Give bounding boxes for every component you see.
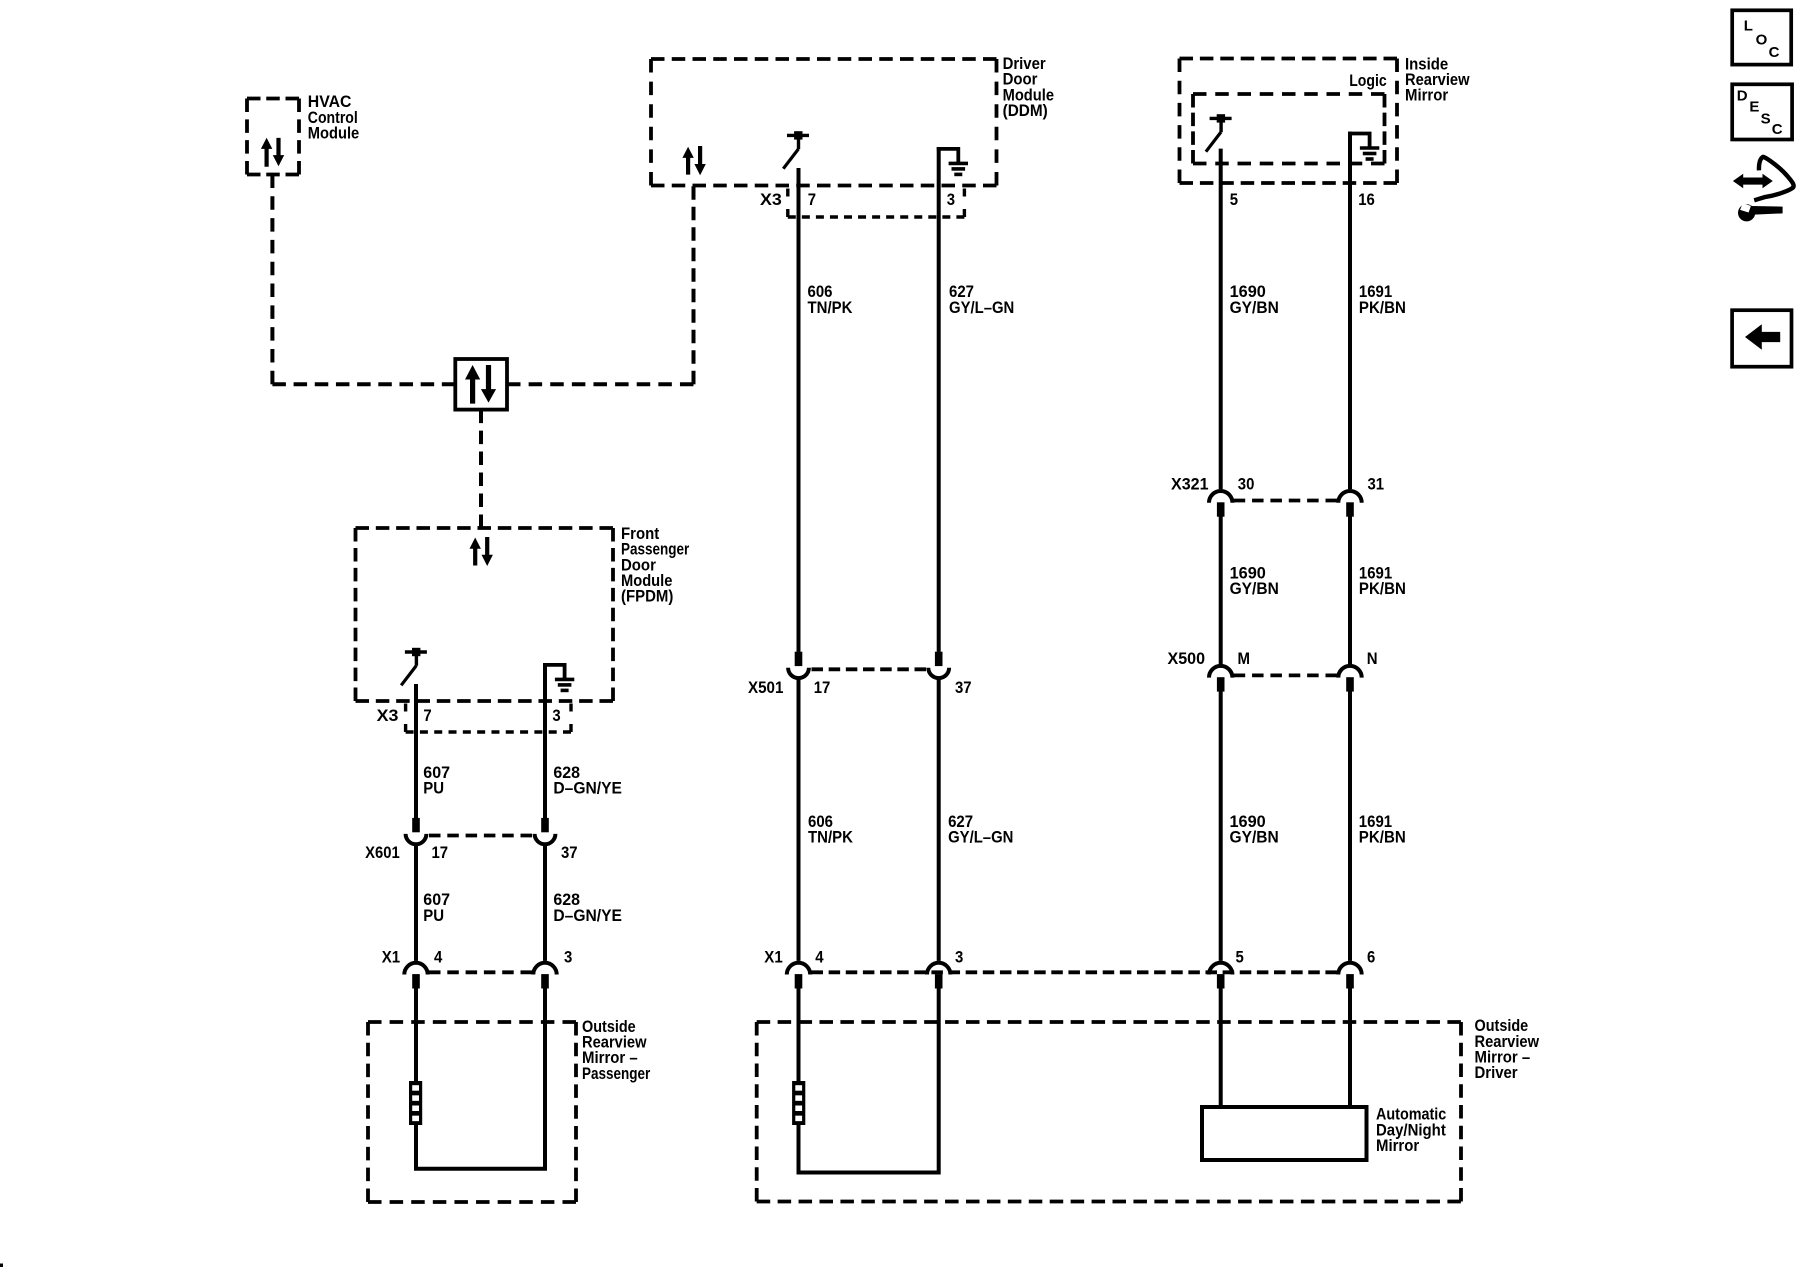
wire 607 PU X601 to X1: [414, 845, 418, 961]
svg-text:X601: X601: [365, 843, 400, 862]
wire (dashed) junction box down to FPDM: [479, 410, 483, 528]
module box: Outside Rearview Mirror - Passenger: [368, 1022, 576, 1202]
label 1691 PK/BN (middle): [1359, 563, 1406, 598]
svg-text:X1: X1: [382, 948, 400, 967]
ground symbol inside FPDM: [543, 665, 574, 691]
ground symbol inside IRM: [1348, 134, 1379, 160]
label 607 PU (upper): [423, 763, 450, 798]
svg-text:Passenger: Passenger: [582, 1064, 651, 1083]
up/down arrow symbol inside DDM: [682, 146, 705, 175]
svg-text:GY/L–GN: GY/L–GN: [948, 828, 1013, 847]
wire 1690 GY/BN X500 to X1: [1219, 691, 1223, 961]
svg-text:Module: Module: [308, 123, 359, 142]
wire 1690 GY/BN IRM to X321: [1219, 149, 1223, 490]
junction box with up/down arrows: [455, 359, 507, 410]
svg-text:3: 3: [552, 706, 560, 725]
svg-text:4: 4: [815, 948, 824, 967]
Front Passenger Door Module (FPDM) label: [621, 524, 690, 606]
svg-text:TN/PK: TN/PK: [808, 828, 854, 847]
wire (dashed) HVAC module down: [270, 175, 274, 385]
svg-text:7: 7: [808, 190, 816, 209]
Outside Rearview Mirror - Driver label: [1475, 1016, 1540, 1082]
connector X500 dashed line: [1234, 674, 1337, 678]
wire 1691 PK/BN IRM to X321: [1348, 132, 1352, 490]
svg-text:PK/BN: PK/BN: [1359, 579, 1406, 598]
heater element (driver mirror): [792, 1081, 805, 1125]
wire X1-6 down to auto day/night mirror: [1348, 988, 1352, 1107]
svg-text:N: N: [1367, 649, 1378, 668]
svg-text:17: 17: [432, 843, 449, 862]
label 627 GY/L-GN (upper): [949, 282, 1014, 317]
label 1690 GY/BN (upper): [1230, 282, 1279, 317]
wire heater to bottom U (passenger mirror): [416, 988, 545, 1169]
svg-text:X3: X3: [760, 190, 782, 209]
svg-text:31: 31: [1368, 474, 1385, 493]
svg-text:PK/BN: PK/BN: [1359, 298, 1406, 317]
DESC icon box: [1732, 84, 1792, 139]
svg-text:X1: X1: [764, 948, 782, 967]
back arrow icon box: [1732, 310, 1791, 367]
label 1691 PK/BN (lower): [1359, 812, 1406, 847]
page edge mark: [0, 1264, 3, 1268]
svg-text:Mirror: Mirror: [1405, 86, 1449, 105]
connector X501 pin 17 symbol: [788, 652, 809, 678]
svg-text:(FPDM): (FPDM): [621, 587, 673, 606]
label 1691 PK/BN (upper): [1359, 282, 1406, 317]
svg-text:5: 5: [1230, 190, 1238, 209]
svg-text:E: E: [1749, 99, 1759, 116]
LOC icon box: [1732, 10, 1791, 64]
svg-text:(DDM): (DDM): [1003, 101, 1048, 120]
connector X1 pin 5 symbol (driver mirror): [1209, 963, 1232, 989]
wire X1-4 down to heater (passenger mirror): [414, 988, 418, 1081]
label 627 GY/L-GN (lower): [948, 812, 1013, 847]
svg-text:X3: X3: [377, 706, 399, 725]
Driver Door Module (DDM) label: [1003, 54, 1054, 120]
svg-text:GY/L–GN: GY/L–GN: [949, 298, 1014, 317]
wire (dashed) junction box to DDM: [507, 382, 694, 386]
svg-text:Mirror: Mirror: [1376, 1136, 1420, 1155]
Automatic Day/Night Mirror label: [1376, 1105, 1446, 1155]
connector X321 pin 31 symbol: [1338, 491, 1361, 517]
wire 628 D-GN/YE X601 to X1: [543, 845, 547, 961]
wire 628 D-GN/YE from FPDM ground to X601: [543, 663, 547, 819]
connector X1 pin 3 symbol (driver mirror): [927, 963, 950, 989]
svg-text:X321: X321: [1171, 474, 1209, 493]
connector X601 dashed line: [429, 834, 532, 838]
svg-text:L: L: [1744, 17, 1753, 34]
svg-text:GY/BN: GY/BN: [1230, 298, 1279, 317]
svg-text:D–GN/YE: D–GN/YE: [553, 906, 622, 925]
svg-text:Logic: Logic: [1349, 71, 1387, 90]
switch symbol inside IRM: [1206, 114, 1232, 152]
wire 1691 PK/BN X321 to X500: [1348, 516, 1352, 664]
svg-text:M: M: [1238, 649, 1251, 668]
heater element (passenger mirror): [409, 1081, 422, 1125]
connector X501 dashed line: [812, 667, 927, 671]
svg-text:4: 4: [434, 948, 443, 967]
wire 607 PU from FPDM switch to X601: [414, 684, 418, 819]
wire heater to bottom U (driver mirror): [799, 988, 939, 1173]
wire 627 GY/L-GN X501 to X1: [937, 678, 941, 961]
module box: HVAC Control Module: [247, 99, 299, 175]
svg-text:TN/PK: TN/PK: [808, 298, 854, 317]
module box: Inside Rearview Mirror (outer): [1180, 59, 1398, 184]
svg-text:GY/BN: GY/BN: [1230, 828, 1279, 847]
svg-text:16: 16: [1358, 190, 1375, 209]
svg-text:3: 3: [947, 190, 955, 209]
connector X601 pin 17 symbol: [406, 818, 427, 844]
connector X1 pin 6 symbol (driver mirror): [1338, 963, 1361, 989]
wire X1-4 down to heater (driver mirror): [797, 988, 801, 1081]
Automatic Day/Night Mirror box: [1202, 1107, 1367, 1160]
connector X321 pin 30 symbol: [1209, 491, 1232, 517]
connector X501 pin 37 symbol: [928, 652, 949, 678]
connector X1 pin 4 symbol (driver mirror): [787, 963, 810, 989]
connector X1 dashed line (passenger mirror): [429, 970, 532, 974]
HVAC Control Module label: [308, 92, 359, 142]
label 606 TN/PK (upper): [808, 282, 854, 317]
svg-text:7: 7: [423, 706, 431, 725]
svg-text:37: 37: [561, 843, 578, 862]
tools/arrow icon: [1733, 157, 1794, 222]
connector X500 pin M symbol: [1209, 666, 1232, 692]
Inside Rearview Mirror label: [1405, 54, 1470, 104]
module box: Outside Rearview Mirror - Driver: [757, 1022, 1461, 1202]
connector box X3 (DDM): [788, 189, 965, 218]
svg-text:D–GN/YE: D–GN/YE: [553, 779, 622, 798]
connector X1 pin 4 symbol (passenger mirror): [404, 963, 427, 989]
connector X1 dashed line (driver mirror): [812, 970, 1338, 974]
switch symbol inside FPDM: [401, 648, 427, 686]
svg-text:D: D: [1737, 87, 1748, 104]
svg-text:S: S: [1761, 111, 1771, 128]
label 1690 GY/BN (lower): [1230, 812, 1279, 847]
connector X1 pin 3 symbol (passenger mirror): [533, 963, 556, 989]
wire (dashed) horizontal to junction box: [272, 382, 455, 386]
module box: Front Passenger Door Module (FPDM): [356, 528, 614, 701]
connector X321 dashed line: [1234, 499, 1337, 503]
svg-text:30: 30: [1238, 474, 1255, 493]
Outside Rearview Mirror - Passenger label: [582, 1017, 651, 1083]
svg-text:O: O: [1756, 32, 1768, 49]
label 606 TN/PK (lower): [808, 812, 854, 847]
svg-text:X501: X501: [748, 678, 783, 697]
wire (dashed) up to DDM bottom: [692, 186, 696, 384]
svg-text:5: 5: [1236, 948, 1244, 967]
ground symbol inside DDM: [937, 149, 968, 175]
svg-text:6: 6: [1367, 948, 1375, 967]
connector X500 pin N symbol: [1338, 666, 1361, 692]
module box: Driver Door Module (DDM): [651, 59, 997, 186]
wire 1690 GY/BN X321 to X500: [1219, 516, 1223, 664]
wire X1-5 down to auto day/night mirror: [1219, 988, 1223, 1107]
label 1690 GY/BN (middle): [1230, 563, 1279, 598]
connector box X3 (FPDM): [406, 704, 571, 733]
svg-text:3: 3: [955, 948, 963, 967]
svg-text:17: 17: [814, 678, 831, 697]
wire 1691 PK/BN X500 to X1: [1348, 691, 1352, 961]
connector X601 pin 37 symbol: [535, 818, 556, 844]
svg-text:C: C: [1772, 121, 1783, 138]
wire 606 TN/PK from DDM switch to X501: [797, 168, 801, 652]
label 628 D-GN/YE (upper): [553, 763, 622, 798]
svg-text:PK/BN: PK/BN: [1359, 828, 1406, 847]
switch symbol inside DDM: [783, 131, 809, 169]
up/down arrow symbol inside HVAC module: [261, 138, 284, 167]
label 628 D-GN/YE (lower): [553, 890, 622, 925]
label 607 PU (lower): [423, 890, 450, 925]
wire 606 TN/PK X501 to X1: [797, 678, 801, 961]
svg-text:PU: PU: [423, 779, 444, 798]
wire 627 GY/L-GN from DDM ground to X501: [937, 147, 941, 652]
svg-text:GY/BN: GY/BN: [1230, 579, 1279, 598]
logic box inside IRM: [1193, 94, 1385, 164]
up/down arrow symbol inside FPDM: [470, 537, 493, 566]
svg-text:C: C: [1769, 44, 1780, 61]
svg-text:PU: PU: [423, 906, 444, 925]
svg-text:3: 3: [564, 948, 572, 967]
svg-text:37: 37: [955, 678, 972, 697]
svg-text:X500: X500: [1168, 649, 1206, 668]
svg-text:Driver: Driver: [1475, 1063, 1518, 1082]
